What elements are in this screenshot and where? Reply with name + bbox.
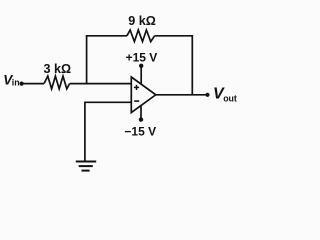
svg-text:3 kΩ: 3 kΩ xyxy=(44,62,72,76)
wire ground vertical xyxy=(84,102,86,162)
op-amp U1 triangle xyxy=(131,77,156,113)
op-amp minus input marking xyxy=(134,100,139,102)
wire Vin to R1 xyxy=(22,83,44,85)
resistor R1 zigzag 3k xyxy=(44,76,70,89)
input terminal dot xyxy=(20,82,24,86)
wire R1 to op-amp noninverting input (node A) xyxy=(70,83,132,85)
wire feedback right vertical xyxy=(191,35,193,95)
ground symbol xyxy=(76,162,96,171)
op-amp plus input marking xyxy=(134,85,139,90)
node Vout label xyxy=(213,85,237,103)
svg-text:−15 V: −15 V xyxy=(124,125,156,139)
output terminal dot xyxy=(205,93,209,97)
wire R2 to right vertical xyxy=(155,35,193,37)
wire top left to R2 xyxy=(86,35,127,37)
supply +15V dot xyxy=(139,64,143,68)
svg-text:out: out xyxy=(223,93,237,103)
supply -15V stub xyxy=(140,105,142,119)
resistor R2 zigzag 9k xyxy=(127,30,155,42)
svg-text:9 kΩ: 9 kΩ xyxy=(128,14,156,28)
supply +15V stub xyxy=(140,66,142,85)
node Vin label xyxy=(3,72,19,87)
wire inverting input to ground branch xyxy=(85,101,131,103)
svg-text:+15 V: +15 V xyxy=(126,51,158,65)
svg-text:in: in xyxy=(12,78,20,88)
wire feedback left vertical xyxy=(86,36,88,85)
wire output xyxy=(156,94,208,96)
supply -15V dot xyxy=(139,117,143,121)
